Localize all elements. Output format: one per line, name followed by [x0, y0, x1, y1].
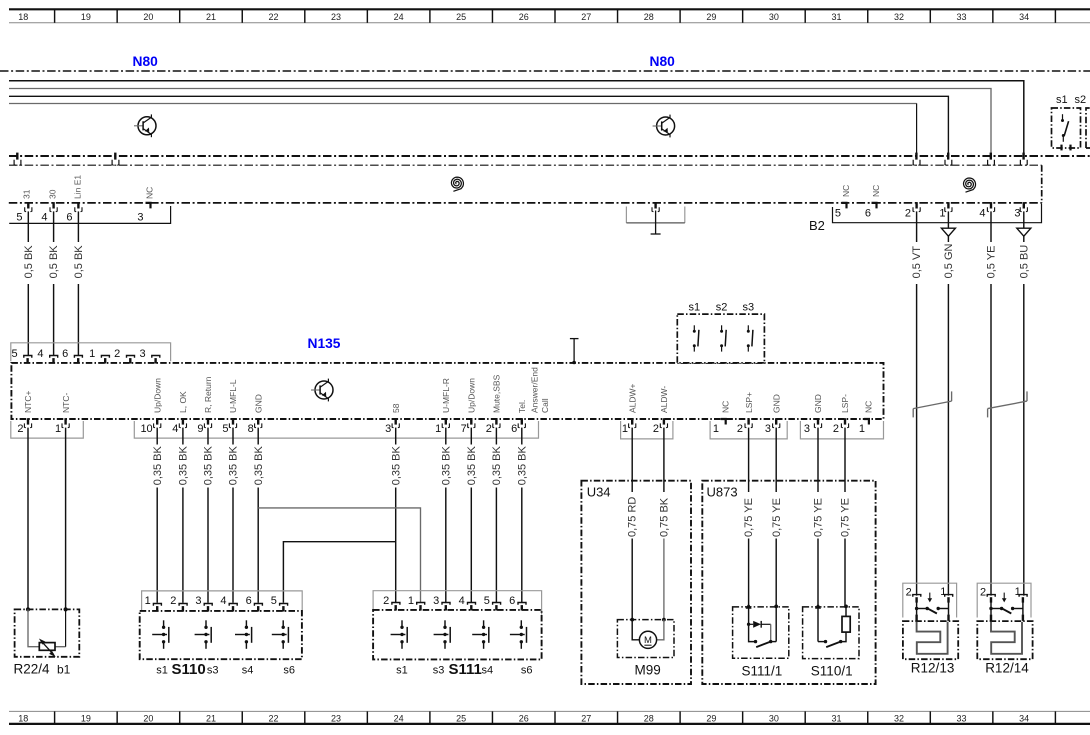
shield crossing mark B	[114, 153, 116, 160]
svg-text:1: 1	[939, 207, 945, 219]
svg-text:NC: NC	[871, 185, 881, 197]
svg-text:1: 1	[408, 595, 414, 607]
svg-text:10: 10	[140, 423, 152, 435]
wire 0,35 BK stub	[232, 428, 234, 445]
svg-text:3: 3	[804, 423, 810, 435]
svg-text:5: 5	[484, 595, 490, 607]
N135 upper connector pin 5 socket	[24, 356, 32, 358]
svg-text:GND: GND	[771, 394, 781, 413]
R12/13 pin 1 socket	[945, 595, 953, 597]
N135 pin 1 mark	[64, 418, 66, 424]
S110 pin 3 socket	[204, 604, 212, 606]
S111/1 diode output	[770, 624, 772, 641]
switch box s1 (top right)	[1052, 108, 1081, 148]
svg-text:N80: N80	[650, 54, 676, 69]
S110 pin 2 socket	[179, 604, 187, 606]
svg-text:6: 6	[509, 595, 515, 607]
wire 0,5 BK lower segment	[77, 284, 79, 356]
pin 3 NC mark	[146, 203, 151, 209]
R12/14 connector housing	[977, 583, 1031, 617]
svg-text:U-MFL-R: U-MFL-R	[441, 378, 451, 413]
svg-text:2: 2	[383, 595, 389, 607]
R12/14 actuation arrow	[1003, 593, 1005, 601]
R22/4 unit box	[15, 609, 80, 656]
R12/14 switch wire right	[1022, 602, 1024, 615]
svg-text:S111: S111	[449, 661, 482, 678]
svg-text:ALDW-: ALDW-	[659, 386, 669, 413]
svg-text:2: 2	[906, 587, 912, 599]
bracket NTC pins	[11, 421, 84, 438]
M99 lead right	[657, 620, 664, 640]
svg-text:33: 33	[957, 713, 967, 723]
svg-text:34: 34	[1019, 12, 1029, 22]
R12/14 pin pass right	[1022, 615, 1024, 621]
wire 0,5 BK lower segment	[27, 284, 29, 356]
wire to arrow terminal	[817, 539, 819, 605]
R12/13 switch lead	[917, 608, 928, 610]
wire 0,35 BK stub	[207, 428, 209, 445]
wire 0,35 BK stub	[521, 428, 523, 445]
svg-text:2: 2	[833, 423, 839, 435]
svg-text:ALDW+: ALDW+	[627, 383, 637, 413]
N135 upper connector pin 2 socket	[127, 356, 135, 358]
N135 pin 1 mark	[445, 418, 447, 424]
svg-text:s1: s1	[156, 665, 168, 677]
svg-text:4: 4	[41, 212, 47, 224]
svg-text:28: 28	[644, 713, 654, 723]
wire 0,5 BK upper segment	[27, 211, 29, 242]
R12/13 pin pass left	[915, 615, 917, 621]
svg-text:S111/1: S111/1	[742, 663, 783, 678]
svg-text:3: 3	[433, 595, 439, 607]
N135 pin 2 mark	[27, 418, 29, 424]
svg-text:0,35 BK: 0,35 BK	[253, 445, 265, 485]
R12/14 switch pivot	[1000, 607, 1003, 610]
wire 0,35 BK stub	[257, 428, 259, 445]
svg-text:21: 21	[206, 713, 216, 723]
wire 0,35 BK to S111	[445, 488, 447, 603]
svg-text:7: 7	[461, 423, 467, 435]
wire 0,35 BK to S111	[470, 488, 472, 603]
S111 push button s4	[472, 620, 489, 649]
svg-text:3: 3	[195, 595, 201, 607]
svg-text:0,75 BK: 0,75 BK	[658, 497, 670, 537]
wire 0,35 BK stub	[495, 428, 497, 445]
wire 0,35 BK stub	[182, 428, 184, 445]
switch box s1 s2 s3	[677, 314, 764, 363]
svg-text:1: 1	[435, 423, 441, 435]
svg-text:5: 5	[835, 207, 841, 219]
S110 connector housing	[142, 591, 303, 615]
N135 pin 7 mark	[470, 418, 472, 424]
svg-text:s6: s6	[283, 665, 295, 677]
upper unit right edge	[1041, 165, 1043, 203]
bottom grid ruler	[9, 711, 1090, 724]
R12/13 connector housing	[903, 583, 957, 617]
svg-text:3: 3	[1014, 207, 1020, 219]
svg-text:1: 1	[1015, 586, 1021, 598]
svg-text:NC: NC	[145, 187, 155, 199]
wire 0,35 BK stub	[156, 428, 158, 445]
svg-text:33: 33	[957, 12, 967, 22]
svg-text:3: 3	[139, 348, 145, 360]
S111 unit box	[373, 610, 541, 660]
svg-text:5: 5	[271, 595, 277, 607]
N80 boundary dash-dot line	[0, 70, 1090, 72]
wire 0,35 BK to S110	[207, 488, 209, 603]
svg-text:Mute,SBS: Mute,SBS	[492, 374, 502, 413]
suppressor transistor symbol right	[653, 115, 675, 138]
svg-text:s4: s4	[481, 665, 493, 677]
svg-text:0,35 BK: 0,35 BK	[516, 445, 528, 485]
svg-text:0,35 BK: 0,35 BK	[152, 445, 164, 485]
svg-text:23: 23	[331, 12, 341, 22]
svg-text:N80: N80	[133, 54, 159, 69]
wire N135 pin2 to R22/4	[27, 428, 29, 610]
R12/13 switch contact mid	[937, 607, 940, 610]
svg-text:26: 26	[519, 713, 529, 723]
R12/13 pin pass right	[947, 615, 949, 621]
wire N135 pin1 to R22/4	[65, 428, 67, 610]
svg-text:2: 2	[114, 348, 120, 360]
S110 pin 1 socket	[153, 604, 161, 606]
svg-text:0,35 BK: 0,35 BK	[228, 445, 240, 485]
S110 push button s4	[235, 620, 252, 649]
switch box s2 partial (clipped)	[1086, 108, 1090, 148]
twisted pair spiral left	[451, 177, 463, 191]
R12/13 pin 2 socket	[913, 595, 921, 597]
svg-text:U34: U34	[587, 485, 611, 500]
switch s2 symbol	[720, 325, 726, 351]
svg-text:s4: s4	[242, 665, 254, 677]
svg-text:B2: B2	[809, 218, 825, 233]
R22/4 junction dot right	[64, 607, 68, 611]
svg-text:GND: GND	[813, 394, 823, 413]
wire ALDW+ upper	[631, 428, 633, 492]
switch s3 symbol	[747, 325, 753, 351]
wire 0,35 BK to S111	[395, 488, 397, 603]
svg-text:24: 24	[394, 12, 404, 22]
N135 upper connector pin 1 socket	[101, 356, 109, 358]
svg-text:1: 1	[622, 423, 628, 435]
svg-text:0,5 BK: 0,5 BK	[23, 245, 35, 279]
svg-text:2: 2	[737, 423, 743, 435]
svg-text:NC: NC	[864, 401, 874, 413]
svg-text:22: 22	[268, 12, 278, 22]
svg-text:0,35 BK: 0,35 BK	[491, 445, 503, 485]
wire 0,5 VT upper segment	[916, 211, 918, 242]
svg-text:0,5 BK: 0,5 BK	[48, 245, 60, 279]
wire 0,35 BK to S110	[232, 488, 234, 603]
svg-text:2: 2	[17, 423, 23, 435]
pin 5 mark	[27, 202, 29, 208]
N135 upper connector pin 4 socket	[50, 356, 58, 358]
S110/1 switch pivot	[839, 640, 842, 643]
svg-text:0,5 VT: 0,5 VT	[911, 246, 923, 279]
wire 0,35 BK stub	[445, 428, 447, 445]
S110 pin 4 socket	[229, 604, 237, 606]
R12/14 pin 1 socket	[1019, 595, 1027, 597]
wire 0,5 YE upper segment	[990, 211, 992, 242]
svg-text:23: 23	[331, 713, 341, 723]
svg-text:5: 5	[222, 423, 228, 435]
S111 pin 3 socket	[442, 603, 450, 605]
pin 6 mark	[77, 202, 79, 208]
wire LSP+ upper	[748, 428, 750, 492]
svg-text:S110: S110	[172, 661, 206, 678]
wire 0,5 BK upper segment	[77, 211, 79, 242]
S110 push button s3	[195, 620, 212, 649]
S110/1 unit box	[803, 607, 859, 659]
N135 pin GND mark	[817, 418, 819, 424]
wire ALDW- lower	[663, 539, 665, 620]
wire 0,5 YE lower segment	[990, 284, 992, 596]
svg-text:19: 19	[81, 12, 91, 22]
svg-text:Up/Down: Up/Down	[152, 378, 162, 413]
M99 lead left	[632, 620, 639, 640]
R12/14 heater element	[991, 622, 1022, 654]
twisted pair spiral right	[964, 178, 976, 192]
bracket LSP left	[710, 421, 787, 439]
R12/13 heater element	[917, 622, 948, 654]
svg-text:NTC-: NTC-	[61, 393, 71, 413]
twist jog wires VT-GN	[912, 409, 914, 418]
svg-text:R12/13: R12/13	[911, 660, 955, 675]
svg-text:R, Return: R, Return	[203, 376, 213, 413]
S111 push button s6	[510, 620, 527, 649]
wire 0,35 BK stub	[470, 428, 472, 445]
svg-text:30: 30	[769, 12, 779, 22]
shield boundary line thick	[9, 155, 1090, 157]
svg-text:0,75 YE: 0,75 YE	[840, 498, 852, 537]
R12/14 switch lead right	[1013, 608, 1023, 610]
svg-text:s1: s1	[396, 665, 408, 677]
svg-text:4: 4	[220, 595, 226, 607]
R12/13 switch lead right	[938, 608, 948, 610]
svg-text:32: 32	[894, 713, 904, 723]
R12/14 switch contact mid	[1011, 607, 1014, 610]
B2 pin 5 NC mark	[842, 203, 847, 209]
svg-text:Call: Call	[540, 398, 550, 413]
terminal T symbol on N135	[573, 339, 575, 363]
wire ALDW+ lower	[631, 539, 633, 620]
svg-text:26: 26	[519, 12, 529, 22]
S110/1 switch blade	[826, 642, 840, 647]
S111/1 input arrow terminal	[746, 603, 752, 609]
svg-text:0,75 YE: 0,75 YE	[771, 498, 783, 537]
svg-text:s3: s3	[742, 301, 754, 313]
wire 0,5 GN lower segment	[947, 284, 949, 596]
svg-text:s2: s2	[1075, 94, 1087, 106]
shield crossing mark A	[16, 153, 18, 160]
svg-text:0,75 YE: 0,75 YE	[813, 498, 825, 537]
wire 0,35 BK to S110	[182, 488, 184, 603]
svg-text:1: 1	[713, 423, 719, 435]
svg-text:NTC+: NTC+	[23, 391, 33, 413]
svg-text:S110/1: S110/1	[811, 663, 853, 678]
R12/14 pin pass left	[990, 615, 992, 621]
svg-text:LSP+: LSP+	[744, 392, 754, 413]
top grid ruler	[9, 9, 1090, 22]
svg-text:R22/4: R22/4	[14, 661, 51, 676]
svg-text:LSP-: LSP-	[840, 394, 850, 413]
B2 pin 6 NC mark	[872, 203, 877, 209]
B2 bracket	[833, 204, 1042, 223]
switch s1 blade	[1064, 121, 1068, 136]
svg-text:0,35 BK: 0,35 BK	[203, 445, 215, 485]
R12/14 switch wire left	[990, 602, 992, 615]
N135 pin NC mark	[864, 419, 869, 425]
svg-text:20: 20	[143, 713, 153, 723]
suppressor transistor symbol left	[134, 114, 156, 137]
svg-text:58: 58	[391, 403, 401, 413]
mid connector pin mark	[654, 202, 656, 208]
svg-text:2: 2	[980, 587, 986, 599]
R12/13 actuation arrow	[929, 593, 931, 601]
R12/13 switch pivot	[926, 607, 929, 610]
R12/13 switch wire right	[948, 602, 950, 615]
R12/13 switch wire left	[916, 602, 918, 615]
terminal T symbol	[655, 211, 657, 235]
S110 push button s6	[272, 620, 289, 649]
svg-text:1: 1	[940, 586, 946, 598]
S111 pin 4 socket	[468, 603, 476, 605]
svg-text:U873: U873	[707, 485, 738, 500]
S111/1 diode	[753, 621, 761, 628]
wire 0,5 BU upper segment	[1023, 211, 1025, 228]
B2 pin 1 mark	[947, 202, 949, 208]
svg-text:s1: s1	[688, 301, 700, 313]
S110 pin 5 socket	[280, 604, 288, 606]
shield boundary line thin	[9, 164, 1042, 166]
N135 pin 8 mark	[257, 418, 259, 424]
svg-text:31: 31	[22, 189, 32, 199]
R22/4 resistor body	[39, 643, 55, 651]
M99 motor symbol	[639, 631, 656, 648]
M99 unit box	[617, 620, 674, 658]
svg-text:3: 3	[137, 212, 143, 224]
svg-text:Answer/End: Answer/End	[530, 367, 540, 413]
wire to dot terminal	[775, 539, 777, 608]
S111/1 pivot to right wire	[771, 641, 777, 643]
wire GND r upper	[817, 428, 819, 492]
svg-text:2: 2	[486, 423, 492, 435]
bus wire 4 (to 0,5 VT)	[9, 103, 917, 105]
S110 pin 6 socket	[254, 604, 262, 606]
bus wire 2 (to 0,5 YE)	[9, 89, 991, 157]
svg-text:4: 4	[172, 423, 178, 435]
svg-text:21: 21	[206, 12, 216, 22]
svg-text:27: 27	[581, 12, 591, 22]
wire GND l upper	[775, 428, 777, 492]
mid connector bracket	[625, 207, 627, 223]
shield crossing mark wire VT	[915, 153, 917, 160]
wire LSP- upper	[844, 428, 846, 492]
svg-text:R12/14: R12/14	[985, 660, 1029, 675]
svg-text:3: 3	[765, 423, 771, 435]
wire 0,35 BK to S111	[495, 488, 497, 603]
S110 push button s1	[152, 620, 169, 649]
svg-text:2: 2	[905, 207, 911, 219]
switch s1 pin marks	[1060, 145, 1062, 151]
svg-text:s3: s3	[433, 665, 445, 677]
svg-text:L, OK: L, OK	[178, 391, 188, 413]
svg-text:0,35 BK: 0,35 BK	[440, 445, 452, 485]
B2 pin 4 mark	[990, 202, 992, 208]
N135 pin 3 mark	[395, 418, 397, 424]
svg-text:s3: s3	[207, 665, 219, 677]
R22/4 junction dot left	[26, 607, 30, 611]
svg-text:s6: s6	[521, 665, 533, 677]
S111/1 switch pivot	[769, 640, 772, 643]
N135 pin 6 mark	[521, 418, 523, 424]
N135 pin NC mark	[721, 419, 726, 425]
S110/1 junction dot top right	[844, 605, 848, 609]
N135 pin 2 mark	[495, 418, 497, 424]
B2 pin 3 mark	[1023, 202, 1025, 208]
S111/1 unit box	[733, 607, 789, 658]
wire 0,35 BK to S110	[156, 488, 158, 603]
bracket ALDW connector	[621, 421, 673, 439]
S111/1 left branch	[749, 624, 756, 641]
S111/1 junction dot	[747, 623, 750, 626]
N135 upper connector pin 6 socket	[74, 356, 82, 358]
shield crossing mark wire YE	[990, 153, 992, 160]
N135 pin 5 mark	[232, 418, 234, 424]
svg-text:6: 6	[865, 207, 871, 219]
svg-text:6: 6	[511, 423, 517, 435]
left connector bracket	[9, 206, 170, 223]
M99 junction dot left	[630, 618, 634, 622]
svg-text:19: 19	[81, 713, 91, 723]
R12/13 switch blade	[927, 608, 937, 613]
S110/1 right wire upper	[845, 606, 847, 616]
svg-text:5: 5	[16, 212, 22, 224]
svg-text:b1: b1	[57, 662, 71, 676]
svg-text:34: 34	[1019, 713, 1029, 723]
U34 unit box	[581, 481, 691, 684]
R12/13 switch contact left	[915, 607, 918, 610]
switch s1 contact bottom	[1062, 134, 1065, 137]
svg-text:0,5 YE: 0,5 YE	[986, 246, 998, 279]
svg-text:s2: s2	[716, 301, 728, 313]
bus wire 3 (to 0,5 GN)	[9, 96, 948, 156]
svg-text:4: 4	[979, 207, 985, 219]
svg-text:1: 1	[859, 423, 865, 435]
shield crossing mark wire GN	[947, 153, 949, 160]
switch s1 symbol	[693, 325, 699, 351]
svg-text:25: 25	[456, 713, 466, 723]
R12/14 switch contact left	[989, 607, 992, 610]
svg-text:s1: s1	[1056, 94, 1068, 106]
svg-text:GND: GND	[253, 394, 263, 413]
wire GND branch to S111 pin1	[258, 508, 420, 603]
svg-text:Tel.: Tel.	[517, 400, 527, 413]
svg-text:0,35 BK: 0,35 BK	[466, 445, 478, 485]
wire 0,5 GN upper segment	[947, 211, 949, 228]
svg-text:M: M	[644, 635, 652, 646]
svg-text:1: 1	[55, 423, 61, 435]
R12/14 switch lead	[991, 608, 1002, 610]
svg-text:22: 22	[268, 713, 278, 723]
svg-text:0,5 BK: 0,5 BK	[73, 245, 85, 279]
wire ALDW- upper	[663, 428, 665, 492]
svg-text:6: 6	[62, 348, 68, 360]
svg-text:4: 4	[459, 595, 465, 607]
S111 pin 2 socket	[392, 603, 400, 605]
svg-text:1: 1	[89, 348, 95, 360]
N135 pin 10 mark	[156, 418, 158, 424]
